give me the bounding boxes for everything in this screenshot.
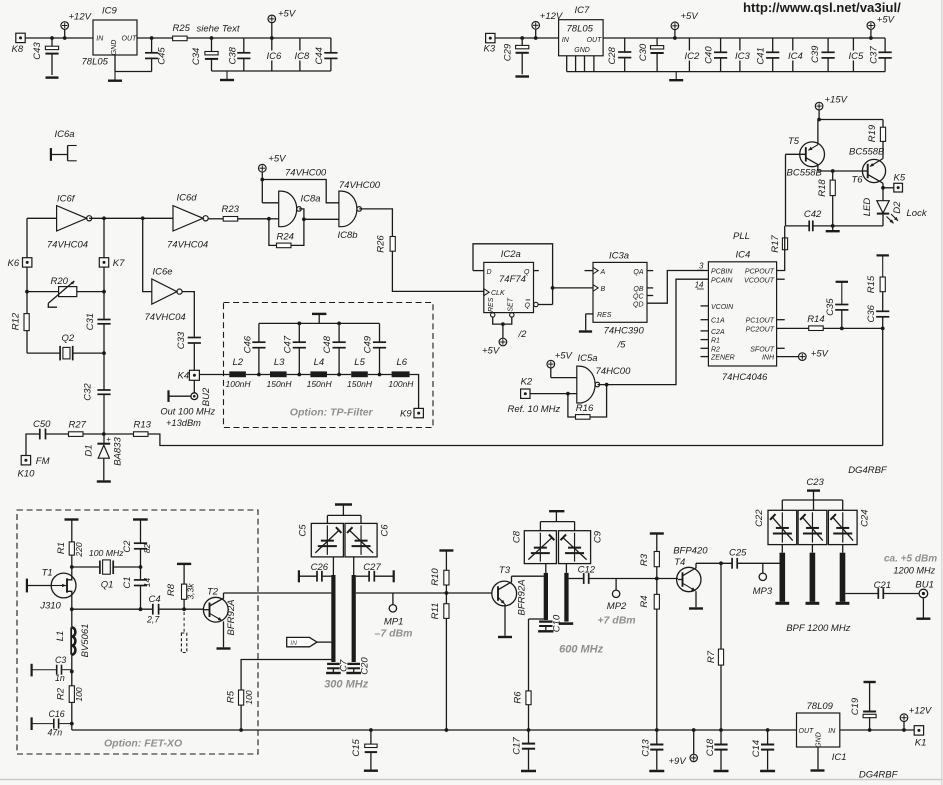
svg-text:74VHC04: 74VHC04 bbox=[47, 240, 88, 251]
wire bbox=[368, 373, 392, 377]
svg-text:C6: C6 bbox=[380, 524, 391, 537]
wire bbox=[833, 225, 883, 227]
wire bbox=[811, 545, 813, 553]
svg-text:R24: R24 bbox=[277, 232, 294, 243]
svg-text:IC8a: IC8a bbox=[301, 194, 321, 205]
svg-text:+13dBm: +13dBm bbox=[166, 418, 201, 428]
resistor R27 bbox=[69, 420, 87, 437]
svg-text:C14: C14 bbox=[751, 740, 762, 757]
wire bbox=[567, 56, 594, 72]
capacitor C30 bbox=[638, 38, 664, 72]
wire bbox=[495, 37, 558, 39]
capacitor C27 bbox=[356, 562, 394, 582]
svg-text:PC1OUT: PC1OUT bbox=[746, 318, 775, 325]
svg-text:L1: L1 bbox=[55, 631, 66, 642]
wire bbox=[845, 593, 877, 595]
svg-text:C49: C49 bbox=[363, 335, 374, 353]
ground bbox=[826, 230, 840, 232]
svg-text:SET: SET bbox=[507, 297, 514, 311]
capacitor C48 bbox=[322, 323, 345, 374]
power +12V bbox=[900, 706, 933, 731]
svg-text:PLL: PLL bbox=[733, 231, 750, 242]
wire bbox=[143, 218, 152, 291]
svg-text:C50: C50 bbox=[33, 419, 51, 430]
wire bbox=[823, 327, 884, 331]
svg-text:K7: K7 bbox=[113, 258, 125, 269]
resonator bar bbox=[836, 553, 850, 604]
wire bbox=[585, 270, 594, 272]
svg-text:78L09: 78L09 bbox=[807, 701, 834, 712]
svg-text:BU1: BU1 bbox=[915, 580, 933, 591]
label ref bbox=[508, 404, 561, 415]
capacitor C12 bbox=[569, 565, 657, 584]
svg-text:D: D bbox=[487, 269, 492, 276]
wire bbox=[27, 217, 57, 219]
resistor R18 bbox=[817, 171, 835, 230]
svg-text:IC5a: IC5a bbox=[578, 353, 598, 364]
wire bbox=[696, 561, 732, 565]
svg-text:C43: C43 bbox=[32, 42, 43, 60]
flip-flop IC2a 74F74 bbox=[484, 249, 534, 317]
svg-text:78L05: 78L05 bbox=[567, 23, 594, 34]
node IC3 supply bbox=[734, 38, 751, 72]
capacitor C34 bbox=[191, 36, 218, 71]
capacitor C15 bbox=[351, 728, 377, 769]
capacitor C18 bbox=[705, 738, 728, 770]
svg-text:C44: C44 bbox=[314, 47, 325, 64]
ground bbox=[669, 72, 683, 81]
option box TP-Filter bbox=[224, 303, 434, 428]
svg-text:C35: C35 bbox=[825, 298, 836, 316]
pin 14 label bbox=[695, 280, 704, 289]
svg-text:B: B bbox=[601, 286, 606, 293]
svg-text:R2: R2 bbox=[56, 687, 67, 700]
svg-text:L3: L3 bbox=[274, 357, 285, 368]
svg-text:IC6f: IC6f bbox=[57, 194, 76, 205]
resistor R12 bbox=[10, 312, 29, 331]
pll IC4 74HC4046 bbox=[708, 231, 776, 383]
wire bbox=[777, 347, 785, 349]
wire bbox=[72, 729, 797, 731]
capacitor C42 bbox=[786, 154, 833, 231]
wire bbox=[818, 169, 863, 173]
capacitor C38 bbox=[227, 38, 250, 71]
transistor T2 BFR92A bbox=[203, 587, 237, 649]
svg-text:IC4: IC4 bbox=[788, 51, 803, 62]
svg-text:QB: QB bbox=[633, 286, 643, 293]
capacitor C26 bbox=[299, 562, 332, 582]
svg-text:PCBIN: PCBIN bbox=[711, 269, 733, 276]
wire bbox=[493, 317, 512, 338]
svg-text:Q: Q bbox=[525, 302, 531, 309]
svg-text:R13: R13 bbox=[134, 420, 152, 431]
svg-text:100nH: 100nH bbox=[388, 379, 414, 389]
svg-text:C2: C2 bbox=[122, 540, 133, 553]
resistor R14 bbox=[807, 314, 824, 331]
svg-text:+5V: +5V bbox=[268, 154, 287, 165]
resistor R1 bbox=[56, 542, 84, 567]
svg-text:R15: R15 bbox=[866, 275, 877, 293]
capacitor C13 bbox=[640, 739, 663, 770]
inductor L5 bbox=[347, 357, 373, 389]
wire bbox=[553, 287, 593, 289]
wire bbox=[701, 330, 709, 332]
svg-text:100 MHz: 100 MHz bbox=[89, 548, 124, 558]
svg-text:CLK: CLK bbox=[491, 290, 505, 297]
svg-text:IC9: IC9 bbox=[102, 6, 118, 17]
ground bbox=[521, 770, 536, 773]
resistor R4 bbox=[639, 579, 659, 745]
wire bbox=[410, 375, 419, 409]
svg-text:GND: GND bbox=[111, 40, 118, 56]
svg-text:IC1: IC1 bbox=[832, 752, 847, 763]
svg-text:L4: L4 bbox=[314, 357, 325, 368]
svg-text:C24: C24 bbox=[860, 509, 871, 526]
svg-text:1n: 1n bbox=[55, 673, 65, 683]
svg-text:VCOOUT: VCOOUT bbox=[744, 277, 775, 284]
wire bbox=[26, 267, 28, 314]
capacitor C31 bbox=[85, 313, 111, 330]
svg-text:GND: GND bbox=[816, 732, 823, 748]
power +5V bbox=[482, 338, 507, 356]
svg-text:C34: C34 bbox=[191, 48, 202, 65]
ground bbox=[220, 71, 234, 80]
svg-text:C18: C18 bbox=[705, 738, 716, 756]
wire bbox=[586, 314, 593, 330]
svg-text:PCAIN: PCAIN bbox=[711, 277, 733, 284]
wire bbox=[777, 319, 785, 321]
wire bbox=[881, 186, 894, 190]
svg-text:150nH: 150nH bbox=[307, 379, 333, 389]
ground bbox=[515, 75, 529, 77]
svg-text:K8: K8 bbox=[12, 44, 24, 55]
trimmer R20 bbox=[25, 276, 106, 307]
svg-text:BC558B: BC558B bbox=[787, 168, 823, 179]
svg-text:R11: R11 bbox=[430, 603, 441, 620]
url text bbox=[743, 0, 901, 15]
capacitor C17 bbox=[512, 730, 535, 770]
capacitor C21 bbox=[874, 580, 920, 599]
svg-text:IC6: IC6 bbox=[267, 51, 283, 62]
resistor R26 bbox=[376, 235, 396, 253]
power +5V bbox=[547, 351, 577, 378]
inductor L4 bbox=[307, 357, 333, 389]
svg-text:VCOIN: VCOIN bbox=[711, 304, 734, 311]
svg-text:C48: C48 bbox=[322, 335, 333, 353]
connector K10 bbox=[18, 456, 50, 480]
resistor R6 bbox=[512, 619, 531, 732]
svg-text:+5V: +5V bbox=[278, 9, 297, 20]
wire bbox=[392, 251, 483, 291]
svg-text:DG4RBF: DG4RBF bbox=[859, 770, 899, 781]
svg-text:MP1: MP1 bbox=[384, 617, 404, 628]
svg-text:C29: C29 bbox=[502, 43, 513, 61]
transistor T5 BC558B bbox=[786, 120, 825, 179]
wire bbox=[473, 270, 484, 272]
gate IC6a bbox=[51, 129, 77, 161]
pin 3 label bbox=[697, 262, 704, 271]
ground bbox=[579, 330, 592, 332]
connector K4 bbox=[178, 370, 200, 381]
svg-text:C4: C4 bbox=[149, 594, 161, 605]
svg-text:R23: R23 bbox=[222, 204, 240, 215]
svg-text:C17: C17 bbox=[512, 737, 523, 755]
resistor R17 bbox=[770, 226, 788, 253]
svg-text:2,7: 2,7 bbox=[146, 615, 160, 625]
svg-text:siehe Text: siehe Text bbox=[197, 24, 240, 35]
resistor R24 bbox=[269, 219, 304, 248]
connector K7 bbox=[99, 258, 125, 269]
inverter IC6e bbox=[145, 267, 186, 324]
ground bbox=[760, 770, 775, 773]
svg-text:Option: TP-Filter: Option: TP-Filter bbox=[290, 407, 374, 419]
resistor R5 bbox=[226, 660, 332, 732]
wire bbox=[701, 305, 709, 307]
connector K1 bbox=[914, 726, 926, 749]
label 600MHz bbox=[559, 644, 604, 656]
inductor L6 bbox=[388, 357, 414, 389]
resistor R11 bbox=[430, 603, 449, 732]
svg-text:ca. +5 dBm: ca. +5 dBm bbox=[884, 554, 937, 565]
regulator IC9 bbox=[82, 6, 138, 68]
svg-text:BPF 1200 MHz: BPF 1200 MHz bbox=[786, 623, 850, 634]
led D2 bbox=[862, 188, 903, 226]
resonator bar bbox=[544, 573, 548, 620]
option box FET-XO bbox=[17, 510, 258, 754]
svg-text:R4: R4 bbox=[639, 595, 650, 607]
wire bbox=[512, 575, 544, 577]
svg-text:K3: K3 bbox=[484, 44, 496, 55]
wire bbox=[356, 591, 492, 595]
svg-text:C20: C20 bbox=[359, 657, 370, 675]
capacitor C29 bbox=[502, 36, 528, 74]
nand IC5a bbox=[577, 353, 631, 403]
svg-text:LED: LED bbox=[862, 198, 873, 217]
power +5V bbox=[259, 154, 288, 203]
svg-text:R2: R2 bbox=[711, 346, 720, 353]
svg-text:300 MHz: 300 MHz bbox=[324, 679, 369, 691]
optional resistor bbox=[181, 612, 186, 653]
svg-text:K1: K1 bbox=[915, 738, 927, 749]
wire bbox=[259, 322, 380, 326]
svg-text:BC558B: BC558B bbox=[849, 147, 885, 158]
ground bbox=[364, 770, 378, 772]
wire bbox=[199, 374, 229, 376]
svg-text:K4: K4 bbox=[178, 371, 190, 382]
svg-text:BV5061: BV5061 bbox=[80, 624, 91, 658]
svg-text:14: 14 bbox=[142, 578, 152, 588]
capacitor C35 bbox=[825, 282, 848, 329]
transistor T4 BFP420 bbox=[673, 546, 708, 609]
svg-text:C23: C23 bbox=[806, 477, 824, 488]
svg-text:C38: C38 bbox=[227, 46, 238, 64]
connector BU2 bbox=[169, 387, 213, 406]
capacitor C4 bbox=[146, 594, 203, 625]
capacitor C20 bbox=[346, 657, 370, 675]
svg-text:Ref. 10 MHz: Ref. 10 MHz bbox=[508, 404, 561, 415]
label out bbox=[160, 407, 215, 428]
inductor L2 bbox=[226, 357, 252, 389]
connector BU1 bbox=[915, 580, 933, 619]
svg-text:Q: Q bbox=[524, 269, 530, 276]
svg-text:BFR92A: BFR92A bbox=[516, 580, 527, 616]
wire bbox=[647, 287, 653, 289]
svg-text:BA833: BA833 bbox=[112, 437, 123, 466]
wire bbox=[269, 218, 279, 220]
resistor R19 bbox=[867, 120, 886, 159]
label lock bbox=[907, 208, 928, 219]
trimmer C22 bbox=[754, 509, 797, 545]
wire bbox=[262, 202, 278, 204]
capacitor C7 bbox=[326, 659, 349, 673]
power +15V bbox=[815, 95, 848, 120]
ground bbox=[714, 770, 729, 773]
svg-text:QC: QC bbox=[633, 294, 644, 301]
wire bbox=[193, 380, 195, 393]
svg-text:IC4: IC4 bbox=[736, 250, 751, 261]
inverter IC6f bbox=[47, 194, 92, 251]
svg-text:C46: C46 bbox=[243, 335, 254, 353]
wire bbox=[840, 728, 914, 732]
svg-text:IC2a: IC2a bbox=[501, 249, 521, 260]
svg-text:IC8: IC8 bbox=[295, 51, 311, 62]
svg-text:R5: R5 bbox=[226, 690, 237, 703]
capacitor C46 bbox=[243, 323, 266, 374]
svg-text:BFP420: BFP420 bbox=[673, 546, 708, 557]
svg-text:C7: C7 bbox=[338, 659, 349, 672]
svg-text:+5V: +5V bbox=[555, 351, 574, 362]
resonator bar bbox=[806, 553, 820, 604]
trimmer C24 bbox=[828, 509, 870, 544]
svg-text:D1: D1 bbox=[83, 444, 94, 456]
resistor R2 bbox=[56, 686, 84, 730]
ground bbox=[312, 314, 326, 324]
wire bbox=[148, 434, 883, 446]
svg-text:IC2: IC2 bbox=[685, 51, 701, 62]
wire bbox=[83, 433, 134, 435]
svg-text:L2: L2 bbox=[233, 357, 244, 368]
svg-text:R1: R1 bbox=[56, 542, 67, 554]
svg-text:+12V: +12V bbox=[909, 706, 933, 717]
svg-text:+15V: +15V bbox=[825, 95, 849, 106]
svg-text:PC2OUT: PC2OUT bbox=[746, 326, 775, 333]
wire bbox=[842, 545, 844, 553]
wire bbox=[777, 278, 785, 280]
power +5V bbox=[867, 15, 896, 40]
svg-text:3,3k: 3,3k bbox=[185, 583, 195, 600]
svg-text:OUT: OUT bbox=[587, 37, 603, 44]
wire bbox=[262, 180, 339, 203]
wire bbox=[359, 209, 392, 237]
svg-text:D2: D2 bbox=[892, 201, 903, 214]
svg-text:DG4RBF: DG4RBF bbox=[848, 465, 888, 476]
inductor L1 bbox=[55, 624, 91, 658]
connector K2 bbox=[521, 377, 533, 399]
svg-text:FM: FM bbox=[36, 456, 50, 467]
svg-text:L6: L6 bbox=[397, 357, 408, 368]
svg-text:QD: QD bbox=[633, 301, 644, 308]
supply bracket bbox=[782, 491, 842, 511]
resistor R25 bbox=[173, 23, 240, 41]
svg-text:R3: R3 bbox=[639, 553, 650, 566]
connector K9 bbox=[400, 408, 423, 419]
svg-text:C28: C28 bbox=[607, 46, 618, 64]
capacitor C10 bbox=[538, 614, 563, 632]
svg-text:R19: R19 bbox=[867, 124, 878, 142]
label DG4RBF bottom bbox=[859, 770, 899, 781]
wire bbox=[473, 244, 554, 305]
wire bbox=[287, 373, 311, 377]
svg-text:1200 MHz: 1200 MHz bbox=[893, 566, 935, 576]
trimmer C5 bbox=[298, 523, 344, 557]
wire bbox=[332, 557, 334, 575]
crystal Q1 bbox=[89, 548, 141, 591]
wire bbox=[137, 37, 173, 39]
svg-text:Q1: Q1 bbox=[101, 580, 114, 591]
inverter IC6d bbox=[167, 193, 208, 251]
svg-text:R14: R14 bbox=[807, 314, 824, 325]
capacitor C47 bbox=[283, 323, 306, 374]
trimmer C9 bbox=[559, 530, 604, 563]
ground bbox=[108, 72, 122, 81]
svg-text:+5V: +5V bbox=[811, 348, 830, 359]
capacitor C39 bbox=[810, 38, 835, 72]
wire bbox=[103, 267, 105, 319]
wire bbox=[27, 331, 60, 354]
capacitor C19 bbox=[850, 682, 876, 730]
svg-text:C41: C41 bbox=[755, 47, 766, 64]
svg-text:+5V: +5V bbox=[482, 346, 501, 357]
svg-text:C22: C22 bbox=[754, 509, 765, 527]
wire bbox=[353, 557, 355, 575]
svg-text:R20: R20 bbox=[51, 276, 69, 287]
svg-text:/5: /5 bbox=[617, 340, 627, 351]
svg-text:IN: IN bbox=[96, 36, 104, 43]
wire bbox=[545, 564, 547, 573]
connector K8 bbox=[12, 33, 26, 55]
svg-text:IC3a: IC3a bbox=[609, 251, 629, 262]
wire bbox=[534, 270, 539, 272]
svg-text:C32: C32 bbox=[83, 383, 94, 401]
svg-text:R25: R25 bbox=[173, 23, 191, 34]
capacitor C49 bbox=[363, 323, 387, 374]
transistor T1 J310 bbox=[27, 567, 76, 627]
capacitor C16 bbox=[32, 709, 74, 738]
input flag IN bbox=[287, 637, 332, 646]
wire bbox=[193, 344, 195, 371]
label DG4RBF top bbox=[848, 465, 888, 476]
svg-text:R17: R17 bbox=[770, 235, 781, 253]
svg-text:C31: C31 bbox=[85, 313, 96, 330]
wire bbox=[530, 392, 577, 396]
svg-text:+: + bbox=[106, 435, 111, 444]
wire bbox=[777, 250, 785, 271]
svg-text:C5: C5 bbox=[298, 524, 309, 537]
label /2 bbox=[518, 329, 528, 340]
wire bbox=[534, 302, 553, 306]
svg-text:R18: R18 bbox=[817, 179, 828, 197]
svg-text:R16: R16 bbox=[576, 403, 594, 414]
svg-text:74VHC00: 74VHC00 bbox=[285, 167, 327, 178]
wire bbox=[701, 347, 709, 349]
label 300MHz bbox=[324, 679, 369, 691]
svg-text:R8: R8 bbox=[166, 583, 177, 596]
svg-text:IC6e: IC6e bbox=[153, 267, 173, 278]
counter IC3a 74HC390 bbox=[593, 251, 647, 351]
node IC5 supply bbox=[847, 38, 864, 72]
svg-text:C1A: C1A bbox=[711, 318, 725, 325]
svg-text:C8: C8 bbox=[512, 530, 523, 543]
